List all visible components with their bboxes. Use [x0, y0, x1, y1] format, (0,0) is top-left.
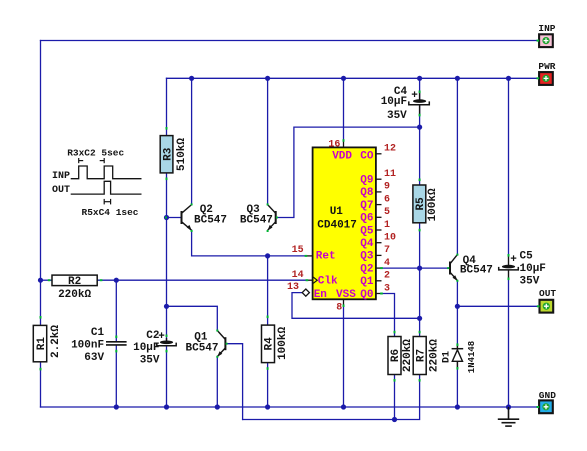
svg-text:C1: C1	[91, 327, 105, 339]
svg-text:35V: 35V	[387, 110, 407, 122]
svg-text:VDD: VDD	[332, 150, 352, 162]
IC U1 pin 15 stub Ret	[305, 255, 312, 257]
svg-text:10µF: 10µF	[520, 263, 546, 275]
svg-text:12: 12	[384, 144, 396, 155]
svg-text:INP: INP	[52, 171, 70, 182]
svg-text:GND: GND	[539, 390, 556, 401]
wire R6 bottom to rail B	[394, 375, 396, 420]
svg-text:4: 4	[384, 258, 390, 269]
svg-text:Q2: Q2	[360, 263, 373, 275]
svg-text:PWR: PWR	[538, 61, 555, 72]
svg-text:BC547: BC547	[186, 342, 219, 354]
capacitor C1	[106, 342, 127, 345]
svg-text:14: 14	[292, 270, 304, 281]
svg-text:220kΩ: 220kΩ	[58, 289, 91, 301]
wire PWR rail	[167, 77, 538, 79]
svg-text:Q8: Q8	[360, 187, 374, 199]
svg-text:2.2kΩ: 2.2kΩ	[50, 325, 62, 358]
IC U1 pin 14 stub Clk with clock wedge	[307, 279, 313, 281]
resistor R3	[160, 136, 188, 173]
IC U1 pin stubs right	[376, 154, 382, 294]
svg-text:6: 6	[384, 194, 390, 205]
svg-text:100nF: 100nF	[71, 340, 104, 352]
resistor R6	[388, 337, 414, 375]
svg-text:Q6: Q6	[360, 213, 373, 225]
wire Q1 base to rail B	[225, 344, 242, 420]
resistor R5	[413, 185, 439, 223]
wire VDD drop from PWR	[343, 78, 345, 140]
wire C1 top drop	[115, 280, 117, 341]
svg-text:R4: R4	[264, 337, 276, 351]
wire OUT line	[457, 305, 537, 307]
wire INP net vertical left down to R1	[40, 41, 42, 326]
svg-text:Q0: Q0	[360, 289, 373, 301]
junction dots ground rail	[114, 404, 511, 409]
svg-text:100kΩ: 100kΩ	[427, 188, 439, 221]
wire C5 bottom to ground rail	[508, 279, 510, 407]
wire C2 bottom to ground rail	[166, 346, 168, 407]
wire R3 bottom through Q2 base node to C2	[166, 173, 168, 341]
connector PWR	[538, 61, 555, 85]
IC U1 CD4017 body	[313, 147, 376, 299]
resistor R2	[52, 275, 97, 301]
resistor R1	[33, 325, 62, 362]
svg-text:10µF: 10µF	[133, 342, 159, 354]
svg-text:Q1: Q1	[360, 276, 374, 288]
wire Clk line R2 left to INP vertical	[41, 279, 53, 281]
svg-text:Q4: Q4	[360, 238, 374, 250]
wire rail B to R7 bottom	[243, 375, 420, 420]
svg-text:BC547: BC547	[194, 214, 227, 226]
wire En pin 13 loop to R5/R7 node	[292, 293, 420, 319]
svg-text:Q3: Q3	[360, 251, 374, 263]
svg-text:1N4148: 1N4148	[467, 341, 477, 373]
IC U1 pin 13 En inverting diamond	[302, 289, 309, 296]
junction dots PWR rail	[189, 76, 511, 81]
wire ground rail A	[41, 406, 538, 408]
transistor Q2	[182, 205, 192, 231]
svg-text:Q9: Q9	[360, 175, 373, 187]
svg-text:Clk: Clk	[318, 276, 338, 288]
IC U1 pin 8 stub VSS	[343, 299, 345, 305]
wire node to R5 top	[419, 127, 421, 185]
wire R1 bottom to ground rail	[40, 362, 42, 407]
svg-text:R7: R7	[416, 349, 428, 362]
wire Ret node down to R4 top	[267, 256, 269, 325]
svg-text:D1: D1	[441, 351, 452, 363]
svg-text:U1: U1	[330, 206, 344, 218]
wire INP net horizontal top	[41, 40, 538, 42]
svg-text:En: En	[314, 289, 327, 301]
wire Q2 emitter to Ret line	[192, 230, 268, 256]
transistor Q4	[450, 255, 457, 281]
svg-text:220kΩ: 220kΩ	[429, 339, 441, 372]
wire node to Q1 collector	[167, 306, 218, 330]
svg-text:R2: R2	[68, 276, 81, 288]
svg-text:10µF: 10µF	[381, 96, 407, 108]
svg-text:16: 16	[328, 139, 340, 150]
wire Q4 emitter to OUT node	[456, 281, 458, 307]
wire D1 bottom to ground rail	[456, 369, 458, 408]
wire IC pin3 Q0 down to R6 top	[381, 294, 395, 337]
wire Q2 base	[167, 217, 182, 219]
wire C4 top from PWR	[419, 78, 421, 99]
junction dots middle nodes	[38, 125, 460, 423]
svg-text:R3xC2 5sec: R3xC2 5sec	[67, 148, 124, 159]
capacitor C5	[499, 250, 546, 287]
svg-text:3: 3	[384, 283, 390, 294]
wire VSS drop to ground rail	[343, 305, 345, 407]
svg-text:63V: 63V	[84, 352, 104, 364]
svg-text:+: +	[510, 254, 517, 266]
wire Q3 collector from PWR	[267, 78, 269, 204]
connector GND	[539, 390, 556, 413]
svg-text:220kΩ: 220kΩ	[402, 339, 414, 372]
svg-text:R6: R6	[390, 349, 402, 362]
svg-text:BC547: BC547	[240, 214, 273, 226]
svg-text:+: +	[411, 90, 418, 102]
svg-text:VSS: VSS	[336, 289, 356, 301]
svg-text:35V: 35V	[520, 275, 540, 287]
wire C4 bottom to node	[419, 106, 421, 128]
diode D1	[452, 344, 464, 368]
svg-text:10: 10	[384, 233, 396, 244]
ground symbol	[498, 407, 519, 426]
svg-text:2: 2	[384, 271, 390, 282]
waveform interval tick right	[100, 158, 105, 163]
wire Clk line R2 right to IC pin 14	[97, 279, 306, 281]
wire C1 bottom to ground rail	[115, 346, 117, 408]
svg-text:R1: R1	[36, 337, 48, 351]
svg-text:CO: CO	[360, 150, 374, 162]
svg-text:510kΩ: 510kΩ	[176, 138, 188, 171]
svg-text:BC547: BC547	[460, 265, 493, 277]
wire R4 bottom to ground rail	[267, 363, 269, 407]
wire Ret line to IC pin 15	[268, 255, 306, 257]
svg-text:CD4017: CD4017	[317, 219, 357, 231]
svg-text:11: 11	[384, 169, 396, 180]
wire Q3 base riser to C4/R5 node	[276, 127, 420, 217]
resistor R4	[262, 325, 290, 363]
svg-text:Q7: Q7	[360, 200, 373, 212]
wire R5 bottom through Q2out node and En node to R7 top	[419, 223, 421, 337]
svg-text:C5: C5	[520, 250, 534, 262]
waveform diagram INP trace	[71, 166, 142, 179]
IC U1 pin 16 stub VDD	[343, 140, 345, 147]
wire PWR to R3 top	[166, 78, 168, 135]
svg-text:100kΩ: 100kΩ	[277, 327, 289, 360]
capacitor C2	[133, 330, 176, 367]
wire Q1 emitter to ground rail	[216, 357, 218, 407]
wire Q4 collector from PWR	[456, 78, 458, 254]
svg-text:OUT: OUT	[539, 288, 556, 299]
svg-text:Q5: Q5	[360, 225, 374, 237]
svg-text:13: 13	[287, 282, 299, 293]
connector INP	[538, 23, 555, 47]
transistor Q1	[217, 331, 225, 357]
svg-text:5: 5	[384, 207, 390, 218]
svg-text:Ret: Ret	[316, 250, 336, 262]
wire C5 top from PWR	[508, 78, 510, 255]
capacitor C4	[381, 86, 430, 122]
svg-text:1: 1	[384, 220, 390, 231]
green terminal tips	[40, 40, 540, 408]
svg-text:R3: R3	[163, 147, 175, 161]
svg-text:9: 9	[384, 182, 390, 193]
waveform width marker H under OUT pulse	[104, 199, 110, 205]
resistor R7	[413, 337, 440, 375]
waveform interval tick left	[79, 158, 84, 163]
waveform diagram OUT trace	[71, 181, 142, 194]
transistor Q3	[268, 205, 276, 231]
svg-text:R5xC4 1sec: R5xC4 1sec	[82, 207, 139, 218]
wire OUT node down to D1	[456, 306, 458, 344]
wire Q2 collector from PWR	[191, 78, 193, 204]
svg-text:15: 15	[292, 245, 304, 256]
wire IC pin4 Q2 output to Q4 base	[381, 267, 450, 269]
svg-text:INP: INP	[538, 23, 555, 34]
svg-text:7: 7	[384, 245, 390, 256]
svg-text:8: 8	[336, 303, 342, 314]
svg-text:R5: R5	[415, 197, 427, 211]
svg-text:35V: 35V	[140, 355, 160, 367]
svg-text:OUT: OUT	[52, 185, 70, 196]
connector OUT	[539, 288, 556, 312]
